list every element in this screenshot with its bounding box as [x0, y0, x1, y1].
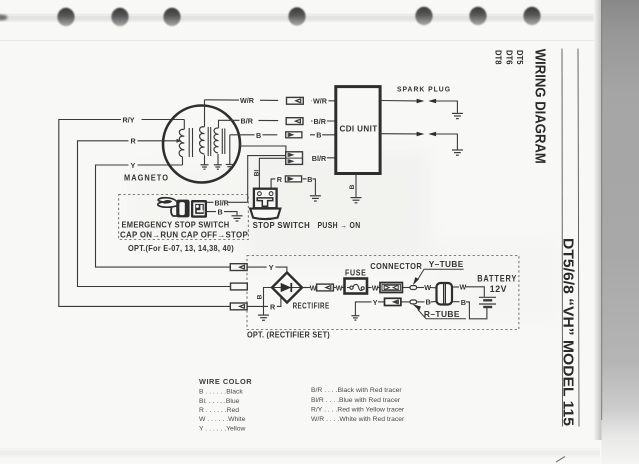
svg-text:PUSH → ON: PUSH → ON: [318, 220, 361, 230]
svg-text:OPT.(For E-07, 13, 14,38, 40): OPT.(For E-07, 13, 14,38, 40): [128, 243, 234, 253]
svg-text:DT6: DT6: [505, 50, 514, 65]
svg-text:W: W: [336, 283, 343, 292]
svg-text:R/Y: R/Y: [123, 115, 135, 124]
svg-text:BATTERY: BATTERY: [477, 273, 517, 283]
svg-text:STOP SWITCH: STOP SWITCH: [253, 220, 311, 230]
svg-text:B: B: [461, 298, 466, 307]
svg-text:DT5: DT5: [515, 50, 524, 65]
svg-text:W: W: [372, 283, 379, 292]
svg-text:B: B: [256, 295, 263, 300]
svg-text:W/R . . . .White with Red trac: W/R . . . .White with Red tracer: [311, 416, 405, 423]
svg-text:Bl. . . . . .Blue: Bl. . . . . .Blue: [199, 398, 240, 405]
svg-text:B/R: B/R: [241, 117, 254, 126]
svg-text:R/Y . . . .Red with Yellow tr: R/Y . . . .Red with Yellow tracer: [311, 407, 405, 414]
svg-text:R: R: [270, 302, 276, 311]
svg-text:OPT. (RECTIFIER SET): OPT. (RECTIFIER SET): [247, 330, 330, 340]
svg-text:R: R: [277, 175, 283, 184]
svg-text:B/R: B/R: [314, 117, 327, 126]
svg-text:W/R: W/R: [240, 96, 255, 105]
svg-text:Y: Y: [373, 298, 378, 307]
svg-text:Y: Y: [269, 263, 274, 272]
svg-text:DT8: DT8: [494, 50, 503, 65]
svg-text:CAP ON→RUN CAP OFF→STOP: CAP ON→RUN CAP OFF→STOP: [120, 229, 248, 239]
svg-text:B: B: [307, 175, 312, 184]
svg-text:Y: Y: [131, 161, 136, 170]
svg-text:12V: 12V: [490, 284, 507, 294]
svg-text:Bl/R . . . .Blue with Red trac: Bl/R . . . .Blue with Red tracer: [311, 397, 401, 404]
svg-text:WIRING DIAGRAM: WIRING DIAGRAM: [532, 49, 549, 164]
svg-text:Bl/R: Bl/R: [312, 154, 327, 163]
svg-text:B: B: [256, 131, 261, 140]
svg-text:W: W: [460, 283, 467, 292]
svg-text:WIRE COLOR: WIRE COLOR: [199, 377, 252, 386]
svg-text:Y–TUBE: Y–TUBE: [429, 259, 464, 269]
svg-text:R: R: [131, 137, 137, 146]
svg-text:Bl: Bl: [254, 170, 261, 177]
svg-text:FUSE: FUSE: [345, 268, 367, 278]
svg-text:W/R: W/R: [313, 97, 328, 106]
svg-text:MAGNETO: MAGNETO: [124, 173, 169, 183]
svg-text:R–TUBE: R–TUBE: [424, 309, 460, 319]
svg-text:SPARK PLUG: SPARK PLUG: [397, 84, 451, 93]
svg-text:Bl/R: Bl/R: [215, 198, 230, 207]
svg-text:R . . . . . .Red: R . . . . . .Red: [199, 407, 239, 414]
svg-text:CDI UNIT: CDI UNIT: [340, 124, 378, 134]
svg-text:CONNECTOR: CONNECTOR: [370, 261, 422, 271]
svg-text:B: B: [218, 208, 223, 217]
svg-text:B: B: [316, 131, 321, 140]
svg-text:W: W: [424, 283, 431, 292]
svg-text:W . . . . . .White: W . . . . . .White: [199, 416, 246, 423]
svg-text:B/R . . . .Black with Red tra: B/R . . . .Black with Red tracer: [311, 387, 402, 394]
svg-text:Y . . . . . .Yellow: Y . . . . . .Yellow: [199, 426, 246, 433]
svg-text:B: B: [349, 185, 356, 190]
svg-text:EMERGENCY STOP SWITCH: EMERGENCY STOP SWITCH: [122, 220, 230, 230]
svg-text:B: B: [426, 298, 431, 307]
svg-text:W: W: [310, 283, 317, 292]
svg-text:RECTIFIRE: RECTIFIRE: [293, 300, 330, 310]
svg-text:B . . . . . .Black: B . . . . . .Black: [199, 388, 243, 395]
